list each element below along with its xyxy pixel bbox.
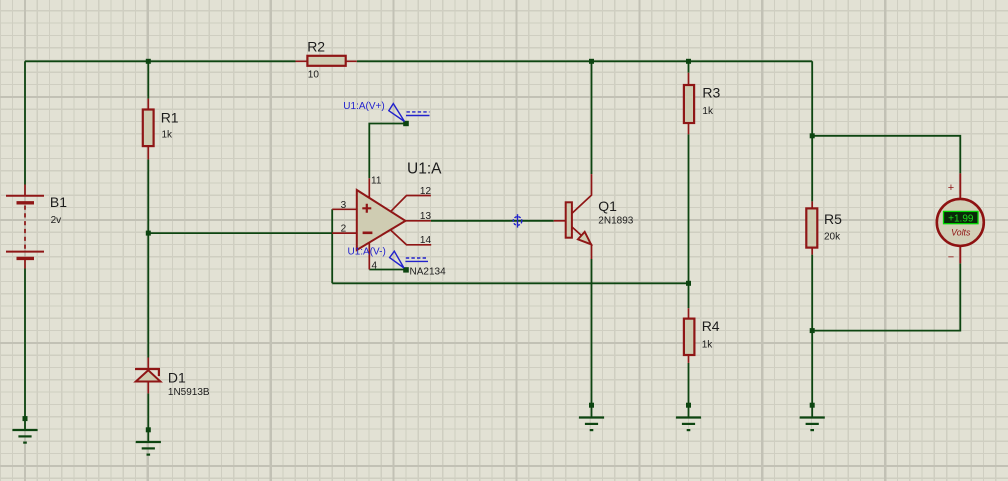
wire V- branch: [369, 269, 404, 271]
svg-text:13: 13: [420, 211, 432, 222]
op-amp pin 4 lead: [368, 242, 370, 270]
wire V+ branch: [369, 124, 404, 179]
ground under D1: [136, 442, 161, 455]
ground under B1: [12, 430, 37, 443]
resistor R1 body: [143, 110, 154, 147]
svg-text:11: 11: [371, 175, 382, 186]
op-amp pin 14 lead: [391, 230, 431, 244]
svg-text:10: 10: [308, 69, 320, 80]
svg-text:20k: 20k: [824, 232, 841, 243]
op-amp pin 2 lead: [332, 232, 357, 234]
wire R1 top stub: [147, 61, 149, 98]
junction node R5 ground: [810, 403, 815, 408]
ground under R4: [676, 418, 701, 431]
wire R3 bottom to node: [688, 134, 690, 283]
wire R3 top stub: [688, 61, 690, 72]
wire left rail lower: [24, 269, 26, 430]
wire top rail right of R2: [357, 60, 812, 62]
wire Q1 emitter to ground: [591, 259, 593, 417]
svg-text:2N1893: 2N1893: [598, 216, 633, 227]
wire meter minus branch: [812, 263, 960, 330]
svg-text:14: 14: [420, 235, 432, 246]
junction node R1/op-amp input: [146, 231, 151, 236]
svg-text:+1.99: +1.99: [948, 213, 974, 224]
resistor R3 leads: [688, 73, 690, 135]
transistor Q1: [554, 174, 592, 259]
junction node R1/top rail: [146, 59, 151, 64]
svg-text:R4: R4: [702, 318, 720, 334]
terminal square V-: [403, 267, 409, 272]
resistor R4 body: [684, 319, 695, 355]
op-amp pin 3 lead: [332, 208, 357, 210]
diode D1 leads: [147, 358, 149, 394]
svg-text:4: 4: [372, 261, 378, 272]
wire top rail left of R2: [25, 60, 296, 62]
junction node meter minus: [810, 328, 815, 333]
junction node B1 ground: [23, 416, 28, 421]
resistor R2 body: [307, 56, 345, 66]
svg-text:3: 3: [341, 200, 347, 211]
resistor R1 leads: [147, 99, 149, 160]
junction node R3/R4 feedback: [686, 281, 691, 286]
svg-text:1k: 1k: [702, 106, 714, 117]
junction node D1 ground: [146, 427, 151, 432]
voltmeter body: [937, 199, 984, 246]
wire Q1 collector to top rail: [591, 61, 593, 174]
wire feedback bottom: [332, 282, 688, 284]
svg-text:U1:A: U1:A: [407, 160, 442, 177]
svg-text:2v: 2v: [51, 215, 62, 226]
junction node meter plus: [810, 133, 815, 138]
svg-text:R2: R2: [307, 38, 325, 54]
resistor R5 body: [806, 208, 817, 247]
junction node R4 ground: [686, 403, 691, 408]
wire D1 to ground: [147, 393, 149, 441]
wire left rail upper: [24, 61, 26, 184]
svg-text:U1:A(V-): U1:A(V-): [348, 247, 386, 258]
battery B1: [6, 196, 44, 259]
resistor R2 leads: [296, 60, 357, 62]
svg-text:Volts: Volts: [951, 227, 971, 237]
resistor R5 leads: [811, 201, 813, 254]
svg-text:U1:A(V+): U1:A(V+): [343, 101, 384, 112]
svg-text:1k: 1k: [702, 340, 714, 351]
op-amp pin 12 lead: [391, 196, 431, 212]
svg-text:Q1: Q1: [598, 198, 617, 214]
op-amp pin 13 lead: [405, 220, 431, 222]
wire R1 to D1: [147, 159, 149, 357]
resistor R4 leads: [688, 308, 690, 363]
wire op-amp output to Q1 base: [431, 220, 554, 222]
svg-text:−: −: [948, 252, 954, 264]
wire R4 to ground: [688, 363, 690, 417]
svg-text:1N5913B: 1N5913B: [168, 387, 210, 398]
op-amp pin 11 lead: [368, 178, 370, 198]
battery B1 leads: [24, 185, 26, 269]
op-amp plus symbol: [362, 204, 371, 213]
wire op-amp input vertical: [331, 209, 333, 283]
terminal square V+: [403, 121, 409, 126]
svg-text:NA2134: NA2134: [410, 267, 447, 278]
voltmeter display: [944, 211, 979, 223]
junction node R3/top rail: [686, 59, 691, 64]
svg-text:1k: 1k: [162, 130, 174, 141]
power pin marker V+ cone: [389, 104, 430, 122]
svg-text:R5: R5: [824, 211, 842, 227]
svg-text:12: 12: [420, 186, 432, 197]
wire node to op-amp pin 2: [148, 232, 332, 234]
voltmeter leads: [959, 173, 961, 263]
wire node to R4: [688, 283, 690, 308]
op-amp U1:A body: [357, 190, 406, 250]
junction node Q1 collector/top rail: [589, 59, 594, 64]
junction node Q1 ground: [589, 403, 594, 408]
wire meter plus branch: [812, 136, 960, 174]
svg-text:+: +: [948, 182, 954, 194]
svg-text:2: 2: [341, 224, 347, 235]
resistor R3 body: [684, 85, 694, 123]
zener diode D1: [135, 369, 160, 382]
svg-text:R3: R3: [702, 85, 720, 101]
wire right rail upper: [811, 61, 813, 201]
power pin marker V- cone: [390, 251, 428, 268]
wire probe marker on output net: [513, 214, 522, 227]
svg-text:R1: R1: [161, 110, 179, 126]
wire right rail lower: [811, 255, 813, 417]
op-amp minus symbol: [363, 232, 373, 235]
ground under R5: [800, 418, 825, 431]
ground under Q1 emitter: [579, 418, 604, 431]
svg-text:B1: B1: [50, 194, 67, 210]
svg-text:D1: D1: [168, 370, 186, 386]
